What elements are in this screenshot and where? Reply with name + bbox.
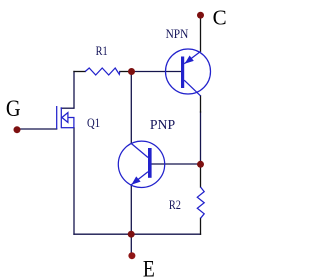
- svg-text:Q1: Q1: [87, 116, 100, 130]
- svg-text:NPN: NPN: [166, 27, 189, 42]
- svg-text:C: C: [213, 5, 227, 29]
- svg-text:R2: R2: [169, 199, 181, 212]
- svg-text:R1: R1: [96, 45, 108, 58]
- svg-text:G: G: [6, 96, 21, 121]
- svg-text:PNP: PNP: [150, 117, 176, 132]
- svg-text:E: E: [143, 256, 155, 279]
